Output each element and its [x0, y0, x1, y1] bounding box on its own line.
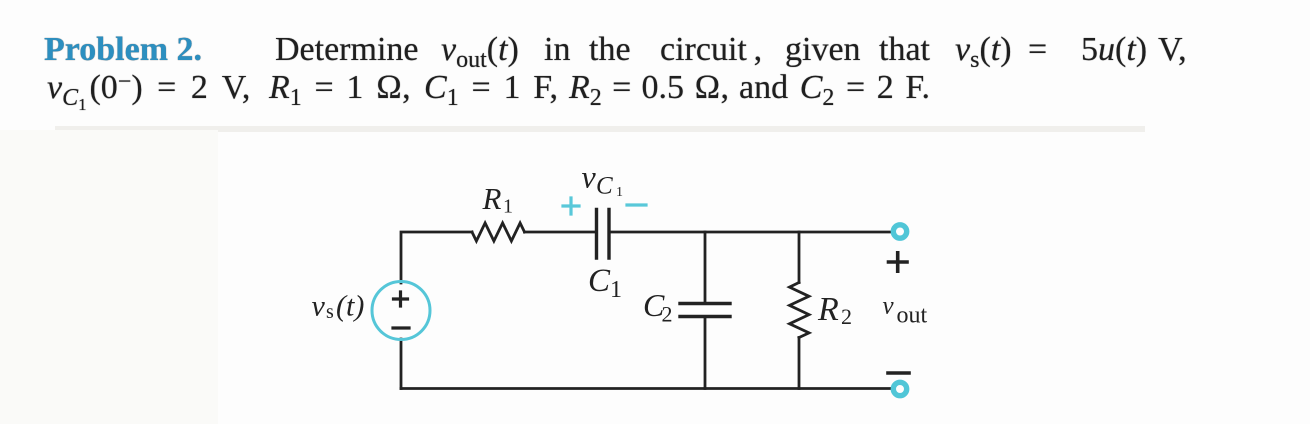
svg-text:(t): (t): [336, 290, 364, 323]
capacitor C1: [597, 210, 610, 259]
wire bottom: [401, 387, 890, 390]
svg-text:1: 1: [610, 277, 622, 303]
wire R2 top: [798, 232, 801, 283]
source plus: [394, 292, 408, 306]
output plus sign: [889, 253, 908, 271]
svg-text:v: v: [312, 290, 326, 323]
svg-text:s: s: [326, 301, 334, 323]
svg-text:v: v: [582, 159, 597, 195]
node C2 top junction: [704, 232, 707, 302]
svg-text:v: v: [883, 293, 895, 320]
source minus: [393, 326, 409, 329]
wire C1 to top terminal: [611, 231, 890, 234]
polarity plus (cyan): [563, 198, 579, 214]
wire R2 bottom: [798, 338, 801, 389]
text line 2: [47, 71, 250, 110]
wire source bottom: [400, 339, 403, 389]
terminal top (vout +): [893, 225, 906, 238]
svg-text:R: R: [482, 181, 502, 216]
svg-text:2: 2: [662, 302, 673, 327]
svg-text:1: 1: [503, 196, 513, 218]
svg-text:out: out: [897, 303, 928, 329]
svg-text:1: 1: [616, 185, 623, 200]
wire C2 bottom: [704, 318, 707, 388]
wire between R1 and C1: [525, 231, 595, 234]
terminal bottom (vout -): [893, 382, 906, 395]
resistor R1: [472, 223, 525, 241]
voltage source vs circle: [372, 282, 430, 340]
polarity minus (cyan): [627, 203, 646, 206]
capacitor C2: [680, 304, 730, 317]
svg-text:C: C: [588, 263, 611, 299]
output minus sign: [888, 371, 909, 375]
resistor R2: [790, 283, 810, 338]
svg-text:C: C: [596, 173, 613, 200]
svg-text:2: 2: [841, 304, 852, 329]
wire top-left segment: [401, 232, 472, 283]
svg-text:R: R: [817, 291, 839, 328]
text line 1: [44, 33, 202, 67]
